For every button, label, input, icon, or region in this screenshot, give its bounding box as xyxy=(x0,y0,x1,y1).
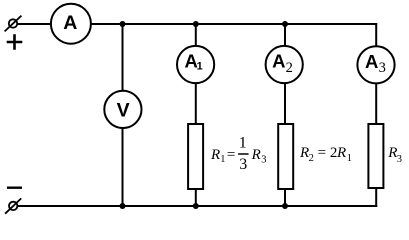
svg-text:A: A xyxy=(272,50,285,71)
svg-text:=: = xyxy=(318,145,326,161)
node: bottom junction branch 1 xyxy=(193,203,199,209)
svg-text:R: R xyxy=(336,145,346,161)
svg-text:=: = xyxy=(227,147,235,163)
wire branch 1 (A1/R1) xyxy=(195,24,197,206)
terminal (- input) xyxy=(5,198,21,213)
svg-text:2: 2 xyxy=(309,153,314,164)
svg-text:V: V xyxy=(117,100,130,122)
wire branch 3 (A3/R3) xyxy=(375,23,377,207)
plus label xyxy=(7,34,23,49)
svg-text:R: R xyxy=(210,147,220,163)
ammeter A1 xyxy=(177,46,214,83)
svg-text:3: 3 xyxy=(397,154,402,165)
wire branch 2 (A2/R2) xyxy=(284,24,286,206)
wire top bus xyxy=(17,23,377,25)
node: top junction branch 1 xyxy=(193,21,199,27)
svg-text:3: 3 xyxy=(379,60,386,76)
wire bottom bus xyxy=(18,205,378,207)
svg-text:1: 1 xyxy=(239,135,247,152)
svg-text:1: 1 xyxy=(197,61,203,73)
svg-text:A: A xyxy=(365,51,378,72)
svg-text:1: 1 xyxy=(347,153,352,164)
ammeter A xyxy=(51,4,91,44)
svg-text:3: 3 xyxy=(239,156,247,173)
svg-text:R: R xyxy=(251,147,261,163)
svg-text:A: A xyxy=(63,12,77,34)
node: top junction branch 2 xyxy=(282,21,288,27)
svg-text:2: 2 xyxy=(286,60,293,76)
resistor R3 xyxy=(368,124,383,188)
node: top junction V branch xyxy=(120,21,126,27)
value label R3 xyxy=(387,145,402,165)
svg-text:3: 3 xyxy=(261,155,266,166)
svg-text:1: 1 xyxy=(220,154,225,165)
node: bottom junction branch 2 xyxy=(282,203,288,209)
resistor R1 xyxy=(188,124,203,189)
value label R2 = 2R1 xyxy=(299,145,352,164)
ammeter A2 xyxy=(266,46,303,83)
ammeter A3 xyxy=(357,46,394,83)
terminal (+ input) xyxy=(5,16,22,32)
node: bottom junction V branch xyxy=(120,203,126,209)
resistor R2 xyxy=(278,124,293,189)
voltmeter V xyxy=(104,91,141,128)
wire voltmeter branch xyxy=(122,24,124,206)
minus label xyxy=(7,186,22,188)
svg-text:R: R xyxy=(299,145,309,161)
value label R1 = 1/3 R3 xyxy=(210,135,267,174)
